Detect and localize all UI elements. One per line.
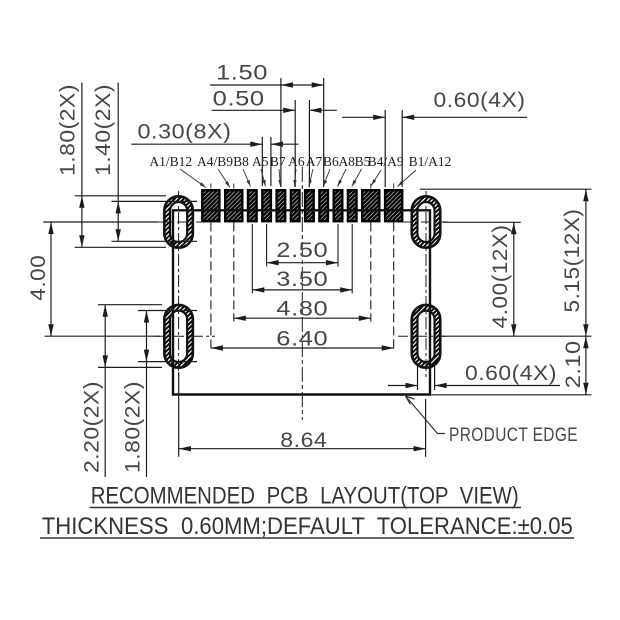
dimension 1.50	[210, 84, 324, 86]
svg-text:4.00(12X): 4.00(12X)	[489, 224, 512, 328]
pin label B4/A9	[368, 154, 404, 186]
dimension 0.50	[212, 109, 296, 111]
svg-text:PRODUCT EDGE: PRODUCT EDGE	[449, 424, 578, 446]
extension line lower oval center right	[441, 335, 591, 337]
svg-text:THICKNESS 0.60MM;DEFAULT TOLER: THICKNESS 0.60MM;DEFAULT TOLERANCE:±0.05	[42, 513, 573, 540]
svg-text:2.10: 2.10	[562, 340, 585, 388]
svg-text:A4/B9: A4/B9	[197, 154, 233, 169]
pin label B5	[352, 154, 371, 187]
pad B1/A12 center line (6.40 extension)	[393, 222, 395, 351]
svg-text:1.40(2X): 1.40(2X)	[92, 84, 115, 176]
dimension 1.80(2X) upper-left	[81, 83, 83, 248]
left ovals vertical center line	[178, 191, 180, 378]
narrow pad 4	[291, 190, 300, 221]
narrow pad 7 center line (2.50 extension)	[337, 224, 339, 267]
wide pad A4/B9	[225, 190, 242, 221]
pin label B8	[233, 154, 250, 187]
svg-text:1.80(2X): 1.80(2X)	[122, 381, 145, 473]
pin label B6	[323, 154, 339, 187]
dimension 8.64	[179, 448, 426, 450]
narrow pad 8 center line (3.50 extension)	[351, 224, 353, 294]
dimension 3.50	[252, 289, 352, 291]
dimension 0.60(4X) top	[342, 116, 385, 118]
dimension 1.80(2X) lower-left	[146, 311, 148, 478]
dimension 0.30(8X)	[131, 143, 262, 145]
narrow pad 2 center line (2.50 extension)	[266, 224, 268, 267]
dimension 4.00(12X) right	[443, 221, 521, 223]
pad A1/B12 center line (6.40 extension)	[210, 222, 212, 351]
svg-text:B1/A12: B1/A12	[409, 154, 452, 169]
pin label B1/A12	[398, 154, 452, 187]
svg-text:A8: A8	[338, 154, 355, 169]
pin label A7	[306, 154, 323, 187]
pin label A1/B12	[149, 154, 206, 188]
connector body outline rectangle	[173, 210, 430, 394]
lower-left oval mounting pad	[164, 305, 193, 368]
narrow pad 3	[277, 190, 286, 221]
pin label A4/B9	[197, 154, 233, 188]
pin label B7	[270, 154, 286, 187]
svg-text:0.60(4X): 0.60(4X)	[465, 362, 557, 385]
svg-text:1.80(2X): 1.80(2X)	[57, 84, 80, 176]
pin label A8	[338, 154, 356, 187]
dimension 6.40	[211, 347, 394, 349]
lower-left oval horizontal center line	[155, 335, 215, 337]
svg-text:4.00: 4.00	[27, 255, 50, 301]
svg-text:6.40: 6.40	[276, 327, 328, 350]
dimension 2.50	[267, 262, 338, 264]
dimension 1.40(2X) upper-left	[117, 83, 119, 242]
narrow pad 1	[248, 190, 257, 221]
upper-left oval mounting pad	[164, 196, 193, 247]
narrow pad 5	[305, 190, 314, 221]
svg-text:A1/B12: A1/B12	[149, 154, 192, 169]
wide pad B1/A12	[385, 190, 402, 221]
upper-right oval mounting pad	[412, 196, 441, 247]
wide pad B4/A9	[362, 190, 379, 221]
svg-text:A7: A7	[306, 154, 323, 169]
product edge leader	[406, 396, 446, 434]
lower-right oval horizontal center line	[398, 335, 445, 337]
svg-text:8.64: 8.64	[280, 429, 327, 452]
pin label A5	[252, 154, 269, 187]
pad B4/A9 center line (4.80 extension)	[370, 222, 372, 321]
right ovals vertical center line	[425, 191, 427, 378]
svg-text:0.30(8X): 0.30(8X)	[138, 121, 232, 144]
pad A4/B9 center line (4.80 extension)	[233, 222, 235, 321]
svg-text:A6: A6	[288, 154, 305, 169]
narrow pad 1 center line (3.50 extension)	[251, 224, 253, 294]
upper-right oval horizontal center line	[402, 221, 448, 223]
vertical center line	[301, 167, 303, 420]
narrow pad 7	[334, 190, 343, 221]
svg-text:B4/A9: B4/A9	[368, 154, 404, 169]
dimension 0.60(4X) bottom	[388, 385, 418, 387]
dimension 4.00 left	[50, 222, 52, 336]
svg-text:2.50: 2.50	[276, 239, 328, 262]
svg-text:5.15(12X): 5.15(12X)	[561, 209, 584, 313]
dimension 4.80	[234, 317, 371, 319]
dimension 2.20(2X) lower-left	[104, 305, 106, 477]
dimension 2.10 right	[585, 336, 587, 395]
svg-text:RECOMMENDED PCB LAYOUT(TOP VIE: RECOMMENDED PCB LAYOUT(TOP VIEW)	[91, 483, 519, 510]
svg-text:B8: B8	[233, 154, 249, 169]
svg-text:B6: B6	[323, 154, 339, 169]
svg-text:2.20(2X): 2.20(2X)	[81, 381, 104, 473]
svg-text:0.50: 0.50	[213, 87, 265, 110]
svg-text:A5: A5	[252, 154, 269, 169]
wide pad A1/B12	[202, 190, 219, 221]
svg-text:3.50: 3.50	[276, 268, 328, 291]
svg-text:0.60(4X): 0.60(4X)	[434, 89, 526, 112]
svg-text:4.80: 4.80	[276, 297, 328, 320]
narrow pad 2	[262, 190, 271, 221]
narrow pad 8	[348, 190, 357, 221]
dimension 5.15(12X) right	[420, 188, 591, 190]
lower-right oval mounting pad	[412, 305, 441, 368]
pin label A6	[288, 154, 305, 187]
svg-text:1.50: 1.50	[216, 62, 268, 85]
narrow pad 6	[319, 190, 328, 221]
svg-text:B7: B7	[270, 154, 286, 169]
upper-left oval horizontal center line	[158, 221, 202, 223]
